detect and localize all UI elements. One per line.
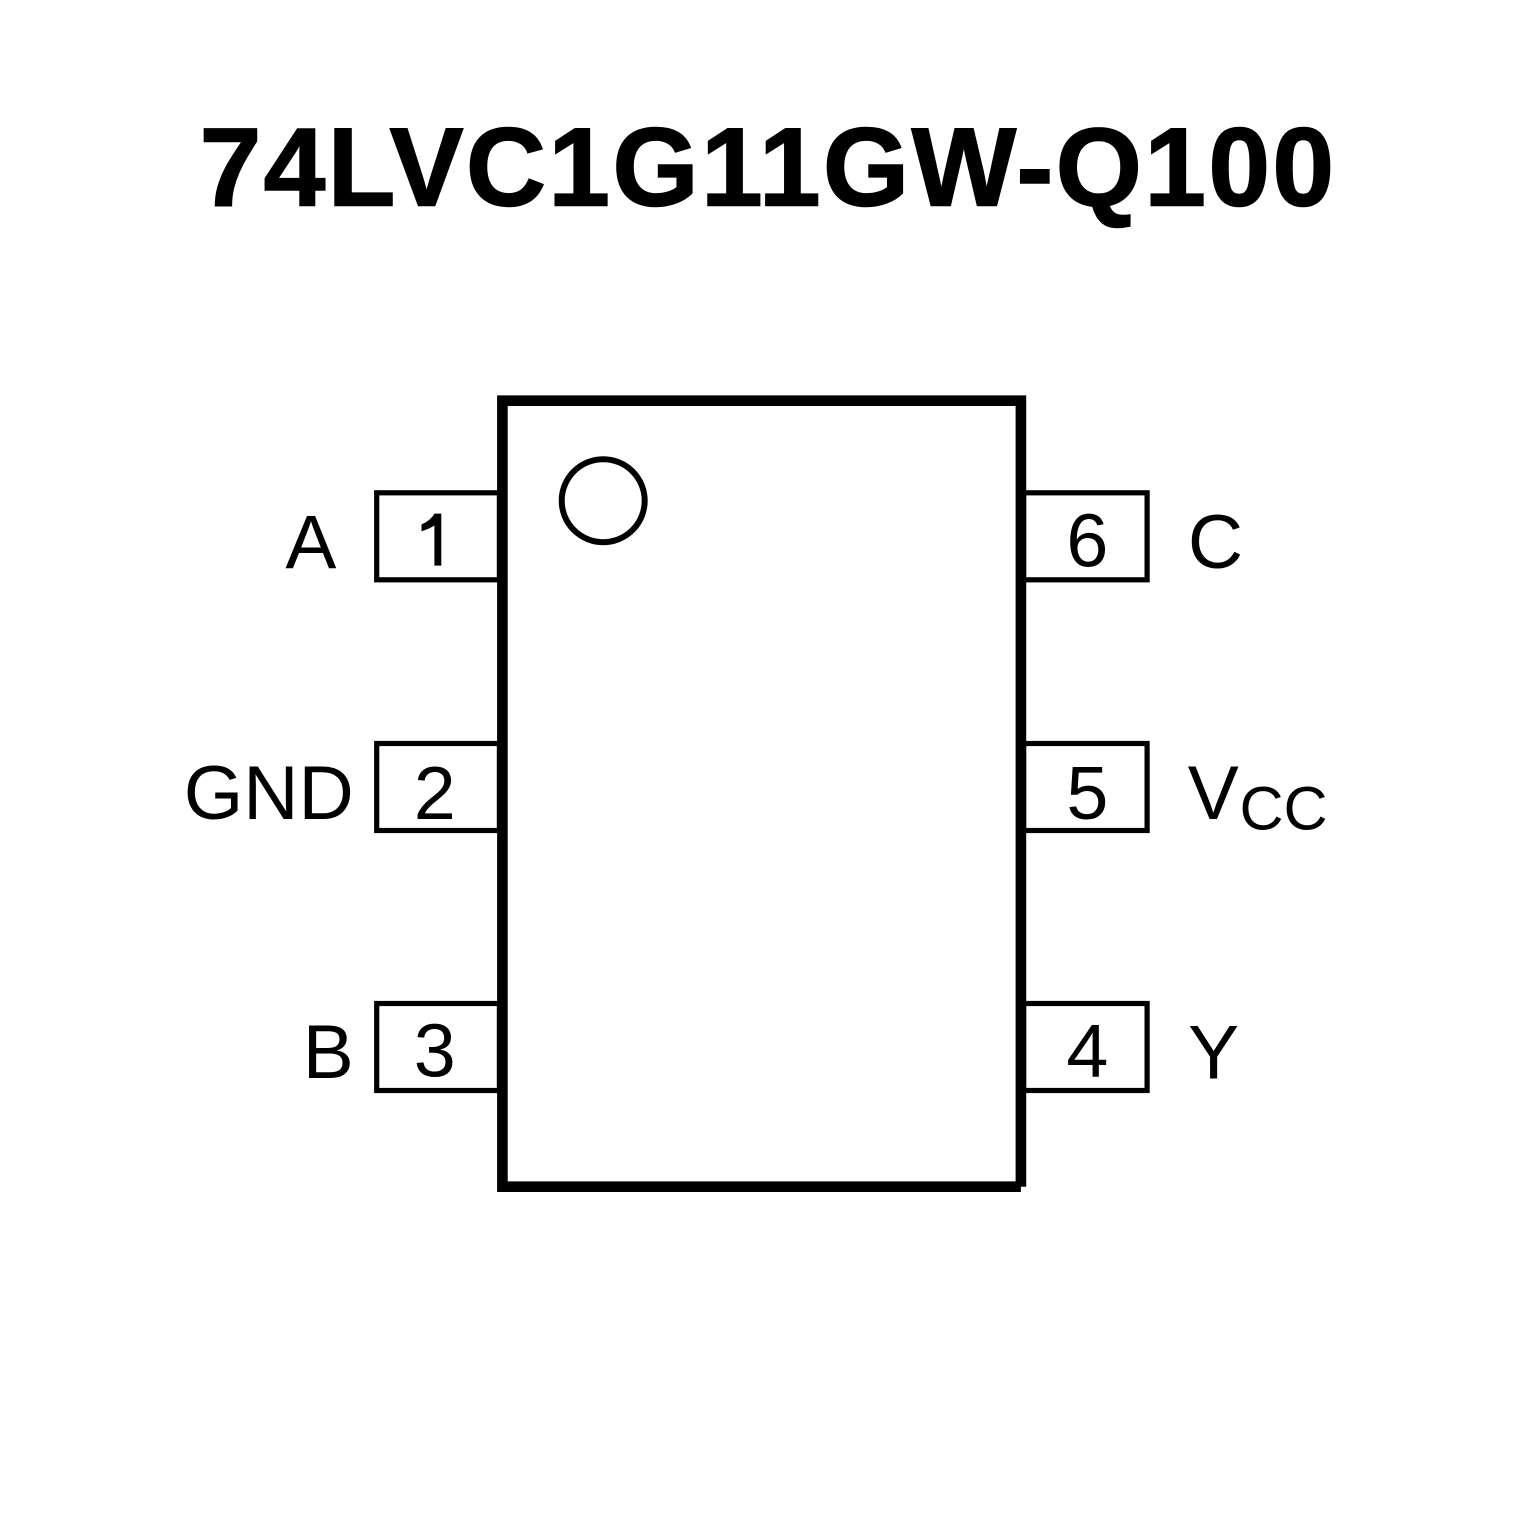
svg-text:3: 3 [414, 1009, 456, 1093]
svg-text:V: V [1188, 751, 1239, 836]
svg-text:Y: Y [1188, 1011, 1239, 1096]
svg-text:B: B [303, 1010, 354, 1095]
svg-text:C: C [1188, 500, 1243, 585]
svg-text:5: 5 [1066, 751, 1108, 835]
svg-text:74LVC1G11GW-Q100: 74LVC1G11GW-Q100 [200, 106, 1337, 230]
svg-text:A: A [285, 501, 336, 586]
svg-text:4: 4 [1066, 1009, 1108, 1093]
svg-text:2: 2 [414, 751, 456, 835]
svg-text:GND: GND [184, 751, 354, 836]
svg-text:CC: CC [1239, 775, 1327, 843]
svg-text:6: 6 [1066, 498, 1108, 582]
